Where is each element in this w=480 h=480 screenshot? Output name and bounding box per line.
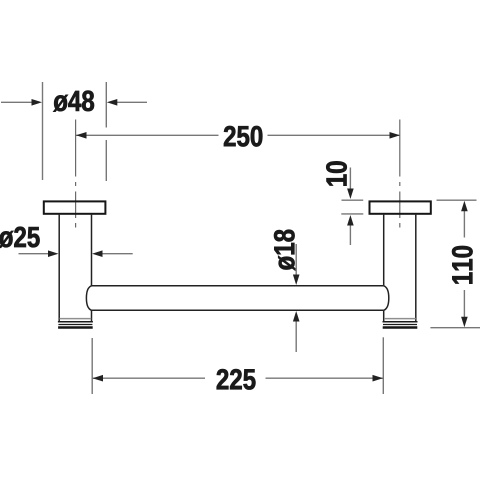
dim 250 line right segment [268,134,401,136]
right mounting plate [370,201,431,213]
dim 110 bottom extension line [430,327,480,329]
dim 250 right arrowhead [390,132,401,139]
dim ø48 left arrowhead [32,99,43,106]
left post right edge lower [91,310,93,321]
left collar ring 2 [58,324,92,326]
dim 250 line left segment [76,134,219,136]
bar right end cap arc [384,286,389,311]
dim 225 text [217,369,256,390]
dim ø25 text [0,227,40,248]
right collar ring 2 [383,324,417,326]
dim 110 top extension line [437,199,477,201]
dim ø25 right arrowhead [92,250,103,257]
dim 225 right extension line [382,337,384,394]
dim ø48 left extension line [42,82,44,180]
dim 10 lower tick [341,213,363,215]
dim ø48 right arrow line [117,101,147,103]
right post right edge [415,215,417,322]
dim ø48 right extension line lower [105,140,107,181]
dim 110 text [452,246,473,284]
dim ø48 left arrow line [1,101,32,103]
dim 10 upper arrowhead [347,189,354,200]
dim 110 top arrowhead [461,201,468,212]
left collar shade line [60,318,92,320]
dim ø18 lower arrowhead [293,311,300,322]
right collar shade line [384,318,416,320]
dim 110 line upper segment [463,211,465,238]
dim 110 line lower segment [463,290,465,317]
dim ø48 right arrowhead [107,99,118,106]
left post centerline [75,120,77,228]
dim ø48 right extension line upper [105,82,107,128]
bar left end cap arc [86,286,91,311]
right post centerline [399,120,401,228]
dim 110 bottom arrowhead [461,317,468,328]
dim 10 lower arrowhead [347,215,354,226]
dim 225 left arrowhead [93,375,104,382]
dim ø18 upper arrowhead [293,275,300,286]
dim 250 left arrowhead [76,132,87,139]
left post right edge upper [91,215,93,286]
left mounting plate [44,201,106,213]
dim 225 line right segment [266,377,384,379]
dim 10 upper tick [342,199,364,201]
right collar base band [383,326,418,329]
right post left edge lower [383,310,385,321]
dim 225 right arrowhead [373,375,384,382]
dim ø25 left arrowhead [48,250,59,257]
dim ø18 text [274,230,295,271]
dim 10 lower arrow line [349,226,351,246]
bar top edge [92,285,384,287]
right collar ring 1 [383,321,418,323]
left collar ring 1 [58,321,93,323]
dim 10 text [326,161,347,185]
dim 225 line left segment [92,377,205,379]
right post left edge upper [383,215,385,286]
left collar base band [58,326,93,329]
dim 250 text [224,126,262,147]
dim ø48 text [53,91,94,112]
dim 225 left extension line [91,338,93,394]
dim 10 upper arrow line [349,168,351,190]
dim ø25 right arrow line [103,253,133,255]
dim ø18 upper arrow line [295,244,297,275]
left post left edge [58,215,60,322]
dim ø18 lower arrow line [295,322,297,353]
dim ø25 left arrow line [19,253,49,255]
bar bottom edge [92,309,384,311]
